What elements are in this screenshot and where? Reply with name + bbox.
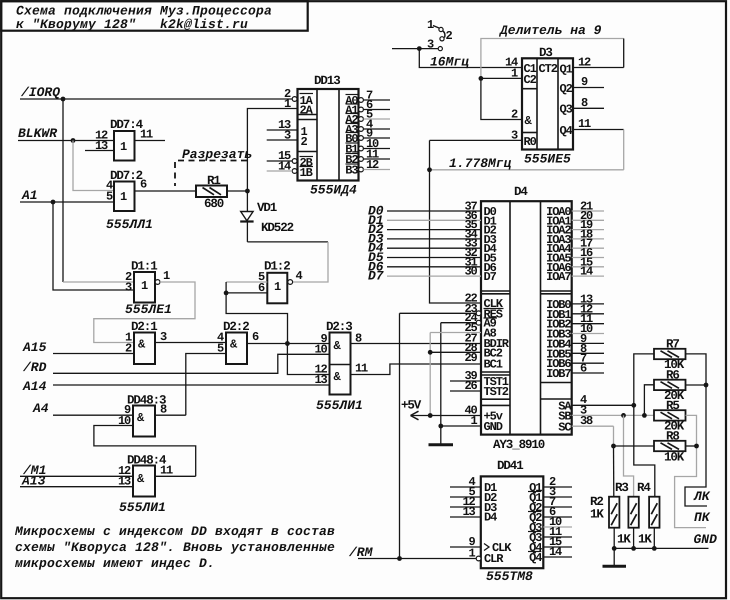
svg-text:3: 3 <box>427 38 434 52</box>
DD13 input stubs pins 13 3 15 14 <box>267 130 298 171</box>
wire R7 right to LK <box>685 354 707 506</box>
DD48:3 pin numbers <box>118 403 167 429</box>
wire DD48:4 output 11 <box>155 475 196 477</box>
svg-text:1: 1 <box>120 190 127 204</box>
svg-text:5: 5 <box>106 190 113 204</box>
wire R3 bottom <box>633 528 635 549</box>
svg-text:D7: D7 <box>484 270 497 284</box>
wire A9 to GND <box>440 323 442 426</box>
svg-text:1B: 1B <box>300 166 313 180</box>
wire Q1 output <box>573 67 624 69</box>
svg-text:R3: R3 <box>615 481 628 495</box>
svg-text:6: 6 <box>580 362 587 376</box>
svg-text:1: 1 <box>120 140 127 154</box>
diode VD1 <box>240 191 253 242</box>
title text <box>16 4 272 33</box>
wire D2:1 output to D2:2 pin4 <box>155 342 226 344</box>
wire /M1 to DD48:4 pin12 <box>20 475 133 477</box>
title box <box>1 1 308 31</box>
svg-text:A14: A14 <box>22 379 47 394</box>
gate D1:1 <box>131 260 157 303</box>
DD41 right pin numbers <box>549 475 562 559</box>
svg-text:8: 8 <box>160 403 167 417</box>
junction net BDIR input <box>285 341 290 346</box>
svg-text:14: 14 <box>580 265 593 279</box>
svg-text:11: 11 <box>355 362 368 376</box>
junction R1/VD1/2A node <box>245 189 250 194</box>
svg-text:13: 13 <box>462 505 475 519</box>
svg-text:1: 1 <box>163 269 170 283</box>
junction SB-R6 <box>642 413 647 418</box>
svg-text:D7: D7 <box>368 269 384 284</box>
svg-text:ПК: ПК <box>694 510 711 525</box>
D4 left pin numbers 37-30 <box>464 200 477 279</box>
DD7:4 pin numbers <box>95 128 153 154</box>
wire feedback to C2 and pin2 <box>481 77 522 79</box>
wire D1:2 input tie <box>226 281 267 283</box>
counter D3 <box>522 46 573 150</box>
D1:1 pin numbers <box>125 269 170 295</box>
gate DD7:2 <box>110 169 143 211</box>
svg-text:A15: A15 <box>22 340 47 355</box>
svg-text:10K: 10K <box>664 451 685 465</box>
wire Q2 stub <box>573 87 604 89</box>
D3 left pin numbers <box>505 56 518 143</box>
DD41 right column labels <box>528 481 542 565</box>
svg-text:Q4: Q4 <box>560 124 573 138</box>
DD13 input bubbles <box>292 97 297 174</box>
svg-text:16Мгц: 16Мгц <box>430 55 469 70</box>
wire A4 to DD48:3 pin9 <box>53 414 133 416</box>
svg-text:GND: GND <box>484 420 503 434</box>
svg-text:29: 29 <box>464 351 477 365</box>
svg-text:BC1: BC1 <box>484 358 503 372</box>
svg-text:555ЛЛ1: 555ЛЛ1 <box>106 217 153 232</box>
svg-text:C2: C2 <box>524 73 537 87</box>
D4 left column labels D0-D7 <box>484 205 497 284</box>
junction C2 feedback <box>479 76 484 81</box>
svg-text:Микросхемы с индексом DD входя: Микросхемы с индексом DD входят в состав <box>14 524 335 539</box>
wire R6 left to SB <box>644 385 654 416</box>
svg-text:к "Кворуму 128": к "Кворуму 128" <box>16 17 136 32</box>
wire Q4 output <box>573 129 624 131</box>
gate DD48:4 <box>127 454 167 497</box>
svg-text:DD13: DD13 <box>314 74 340 88</box>
wire DD48:3 pin10 from DD48:4 out <box>94 426 196 477</box>
junction /RM-RES <box>397 556 402 561</box>
junction D1:2 pin6 <box>224 291 229 296</box>
wire junction to DD13 pin1 2A <box>247 109 297 192</box>
svg-text:IOA7: IOA7 <box>546 270 571 284</box>
svg-text:SC: SC <box>558 420 571 434</box>
wire D2:2 output 6 to D2:3 pin9 <box>247 343 330 345</box>
ground symbol near D4 <box>429 426 454 445</box>
junction rail R3 <box>631 546 636 551</box>
svg-text:11: 11 <box>140 128 153 142</box>
wire A13 to DD48:4 pin13 <box>20 486 133 488</box>
power +5V arrow <box>401 399 422 420</box>
DD13 left pin numbers <box>278 87 291 174</box>
svg-text:1K: 1K <box>590 508 604 522</box>
svg-text:B3: B3 <box>345 164 358 178</box>
svg-text:TST2: TST2 <box>484 385 509 399</box>
svg-text:1: 1 <box>274 280 281 294</box>
D4 pin 3 SB <box>572 404 654 418</box>
wire A8/BC2 to +5V <box>429 333 431 416</box>
wire R8 right <box>686 445 697 447</box>
resistor R1 <box>196 174 227 211</box>
wire BLKWR <box>18 140 114 142</box>
svg-text:30: 30 <box>464 265 477 279</box>
svg-text:2A: 2A <box>300 104 314 118</box>
gate D1:2 <box>264 260 290 304</box>
svg-text:1: 1 <box>284 97 291 111</box>
wire A1 <box>20 201 114 203</box>
svg-text:k2k@list.ru: k2k@list.ru <box>160 17 248 32</box>
svg-text:VD1: VD1 <box>257 201 277 215</box>
svg-text:Q1: Q1 <box>560 63 573 77</box>
resistor R7 10K <box>654 338 686 373</box>
gate D2:3 <box>326 320 352 395</box>
svg-text:схемы "Кворуса 128". Вновь уст: схемы "Кворуса 128". Вновь установленные <box>15 540 335 555</box>
svg-text:2: 2 <box>511 108 518 122</box>
wire SB to R3 <box>624 415 634 496</box>
svg-text:R4: R4 <box>637 481 651 495</box>
svg-text:R0: R0 <box>524 135 537 149</box>
D1:2 output bubble <box>288 280 293 285</box>
svg-text:13: 13 <box>118 475 131 489</box>
D4 pin 23 RES <box>400 302 482 316</box>
wire junction to R2 <box>613 446 615 497</box>
DD13 output stubs <box>363 100 390 170</box>
svg-text:D4: D4 <box>484 511 497 525</box>
D4 pin 24 A9 <box>441 311 481 325</box>
svg-text:1K: 1K <box>617 533 631 547</box>
D4 left column labels CLK..BC1 <box>484 297 510 434</box>
svg-text:IOB7: IOB7 <box>546 367 571 381</box>
junction LK net <box>704 383 709 388</box>
svg-text:1: 1 <box>511 67 518 81</box>
wire R2 bottom <box>613 528 615 549</box>
wire D2:3 output 11 to BC1 <box>351 364 482 375</box>
svg-text:BLKWR: BLKWR <box>18 126 57 141</box>
svg-text:KD522: KD522 <box>261 221 294 235</box>
junction 16MHz <box>417 46 422 51</box>
wire DD7:4 pin13 stub <box>85 150 114 152</box>
junction GND pin1 <box>438 424 443 429</box>
wire BLKWR to DD7:2 pin4 <box>73 141 114 191</box>
svg-text:555ИЕ5: 555ИЕ5 <box>524 152 571 167</box>
wire /RD to D2:3 pin10 <box>53 354 330 373</box>
svg-text:GND: GND <box>694 532 718 547</box>
D4 pin 38 SC <box>572 414 614 428</box>
svg-text:CT2: CT2 <box>539 62 558 76</box>
wire Q1 feedback top <box>481 39 624 79</box>
DD13 output pin numbers <box>366 89 379 173</box>
svg-text:DD41: DD41 <box>497 459 523 473</box>
dashed cut line <box>175 161 247 187</box>
wire /RM <box>358 558 476 560</box>
wires D0-D7 <box>387 211 481 276</box>
svg-text:555ЛИ1: 555ЛИ1 <box>119 500 166 515</box>
D4 pin 25 A8 <box>430 321 481 335</box>
svg-text:1: 1 <box>141 279 148 293</box>
wire ground rail <box>614 547 708 549</box>
svg-text:1.778Мгц: 1.778Мгц <box>449 156 512 171</box>
gate D2:2 <box>223 320 249 364</box>
svg-text:Q3: Q3 <box>560 103 573 117</box>
junction SB-R3 <box>621 413 626 418</box>
DD41 CLR bubble <box>476 556 481 561</box>
svg-text:4: 4 <box>296 269 303 283</box>
wire clock to D4 CLK <box>430 170 482 303</box>
junction SC-R8-R2 <box>611 444 616 449</box>
svg-text:Делитель на 9: Делитель на 9 <box>498 23 602 38</box>
D4 pin 4 SA <box>572 393 634 407</box>
svg-text:Q2: Q2 <box>560 82 573 96</box>
svg-text:Q4: Q4 <box>529 551 542 565</box>
svg-text:3: 3 <box>284 129 291 143</box>
D4 IOB stubs <box>572 304 604 373</box>
D1:1 output bubble <box>155 280 160 285</box>
gate DD48:3 <box>127 394 166 437</box>
gate DD7:4 <box>110 118 144 161</box>
jumper switch S1 <box>427 18 453 52</box>
wire D2:2 pin5 from DD48:3 <box>186 354 226 416</box>
D4 IOA stubs <box>572 211 604 276</box>
music processor D4 <box>481 185 572 435</box>
wire D2:3 output 8 to BDIR <box>351 343 482 345</box>
resistor R8 10K <box>654 430 686 465</box>
D4 pin 26 TST2 <box>450 379 481 393</box>
junction rail R2 <box>612 546 617 551</box>
decoder DD13 <box>298 74 359 181</box>
node D0-D7 labels <box>368 204 384 284</box>
svg-text:A1: A1 <box>21 188 38 203</box>
register DD41 <box>481 459 544 568</box>
svg-text:6: 6 <box>252 330 259 344</box>
wire A14 to D2:3 pin13 <box>53 384 330 386</box>
svg-text:2: 2 <box>301 135 308 149</box>
junction 1.778MHz <box>427 167 432 172</box>
DD41 left pin numbers <box>462 475 475 561</box>
svg-text:555ИД4: 555ИД4 <box>310 183 357 198</box>
junction /IORQ <box>61 97 66 102</box>
wire SA to R7 and R4 <box>634 354 655 497</box>
junction +5V <box>428 413 433 418</box>
wire to D2:3 pin12 <box>287 344 329 375</box>
D2:3 pin numbers <box>314 332 368 388</box>
wire R6 right <box>686 384 707 386</box>
wire A1 to D1:1 pin3 <box>53 202 134 290</box>
wire Q3 stub <box>573 107 604 109</box>
DD13 right column labels <box>345 94 358 178</box>
D1:2 pin numbers <box>258 269 303 295</box>
svg-text:ЛК: ЛК <box>693 489 711 504</box>
wire DD7:4 output 11 <box>135 140 166 142</box>
wire R5 right to PK <box>675 415 706 527</box>
wire SC to R8 junction <box>613 426 615 446</box>
svg-text:2: 2 <box>125 342 132 356</box>
wire VD1 to D1:2 output <box>247 241 328 243</box>
wire DD48:3 output 8 <box>155 414 186 416</box>
svg-text:14: 14 <box>549 545 562 559</box>
wire /IORQ to D1:1 pin2 <box>62 99 64 282</box>
svg-text:13: 13 <box>314 373 327 387</box>
svg-text:CLR: CLR <box>484 552 504 566</box>
D4 IOB pin numbers 13-6 <box>580 292 593 375</box>
wire R4 bottom <box>653 528 655 549</box>
DD41 left stubs <box>450 487 481 547</box>
junction BC2 <box>428 350 433 355</box>
wire /RM to RES vertical <box>399 313 401 558</box>
svg-text:+5V: +5V <box>401 399 422 413</box>
wire junction to R8 left <box>614 445 655 447</box>
junction SA <box>631 403 636 408</box>
ground symbol bottom <box>603 548 627 566</box>
svg-text:14: 14 <box>278 160 291 174</box>
svg-text:555ТМ8: 555ТМ8 <box>486 569 533 584</box>
wire 1.778MHz <box>430 169 624 171</box>
svg-text:1: 1 <box>427 18 434 32</box>
resistor R6 20K <box>654 369 686 404</box>
wire to R0 <box>429 140 431 169</box>
svg-text:555ЛИ1: 555ЛИ1 <box>316 398 363 413</box>
wire 16MHz to D3 C1 <box>419 49 522 68</box>
wire A15 to D2:1 pin2 <box>53 353 134 355</box>
D4 pin 28 BC2 <box>430 341 481 355</box>
D4 pin 39 TST1 <box>450 369 481 383</box>
svg-text:D1:2: D1:2 <box>264 260 290 274</box>
note text <box>14 524 335 571</box>
junction rail R4 <box>652 546 657 551</box>
svg-text:/RD: /RD <box>22 360 47 375</box>
svg-text:1K: 1K <box>638 533 652 547</box>
resistor R5 20K <box>654 399 686 434</box>
svg-text:6: 6 <box>140 178 147 192</box>
svg-text:A4: A4 <box>32 401 49 416</box>
D4 pin 1 GND <box>441 414 481 428</box>
DD13 output bubbles <box>359 98 364 172</box>
wire 16MHz input stub <box>392 48 438 50</box>
gate D2:1 <box>131 320 157 364</box>
junction PK net <box>694 444 699 449</box>
wire /IORQ <box>20 98 292 100</box>
D3 right pin numbers <box>578 56 591 132</box>
svg-text:680: 680 <box>204 197 224 211</box>
svg-text:микросхемы имеют индес D.: микросхемы имеют индес D. <box>14 556 215 571</box>
DD7:2 pin numbers <box>106 178 147 204</box>
svg-text:AY3_8910: AY3_8910 <box>493 438 545 452</box>
wire DD7:2 output 6 to R1 <box>135 190 197 192</box>
svg-text:3: 3 <box>125 281 132 295</box>
D2:2 pin numbers <box>217 330 259 356</box>
D2:1 pin numbers <box>125 330 167 356</box>
wire R1 to junction <box>227 190 247 192</box>
junction A1 <box>51 200 56 205</box>
D4 pin 40 +5v <box>411 404 482 418</box>
wire D1:1 output to D2:1 pin1 <box>94 282 195 343</box>
resistor R2 1K <box>590 495 604 522</box>
DD48:4 pin numbers <box>118 464 173 489</box>
svg-text:/RM: /RM <box>348 545 374 560</box>
svg-text:D4: D4 <box>514 185 528 199</box>
svg-text:/IORQ: /IORQ <box>20 85 60 100</box>
junction BLKWR <box>71 138 76 143</box>
svg-text:555ЛЕ1: 555ЛЕ1 <box>125 302 172 317</box>
D4 IOA pin numbers 21-14 <box>580 200 593 279</box>
svg-text:2: 2 <box>446 29 453 43</box>
svg-text:DD7:4: DD7:4 <box>110 118 144 132</box>
svg-text:10: 10 <box>314 343 327 357</box>
DD41 right stubs <box>543 487 572 557</box>
svg-text:12: 12 <box>366 158 379 172</box>
svg-text:11: 11 <box>160 464 173 478</box>
D4 right column labels <box>546 205 572 434</box>
